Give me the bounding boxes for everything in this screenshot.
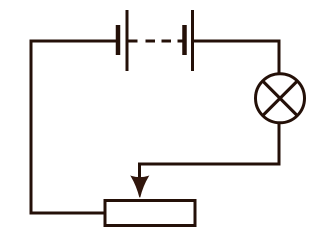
wire stub after cell 1 (129, 40, 138, 43)
rheostat body (105, 201, 195, 226)
dashed link (additional cells) dash 1 (146, 40, 156, 43)
wire lamp bottom vertical (278, 123, 281, 166)
dashed link (additional cells) dash 2 (162, 40, 172, 43)
lamp circle (256, 74, 305, 123)
battery cell 1 negative plate (116, 25, 121, 55)
wire wiper vertical stub (138, 163, 141, 181)
lamp cross diagonal 1 (263, 81, 298, 116)
lamp cross diagonal 2 (263, 81, 298, 116)
wire left vertical (30, 40, 33, 215)
wiper arrowhead (131, 176, 148, 197)
wire top left horizontal (30, 40, 117, 43)
wire bottom left horizontal (30, 212, 104, 215)
wire right vertical to lamp (278, 40, 281, 75)
battery cell 1 positive plate (126, 10, 129, 71)
wire stub before cell 2 (178, 40, 184, 43)
battery cell 2 positive plate (191, 10, 194, 71)
wire horizontal to wiper (138, 163, 281, 166)
battery cell 2 negative plate (182, 25, 187, 55)
wire top right horizontal (194, 40, 281, 43)
